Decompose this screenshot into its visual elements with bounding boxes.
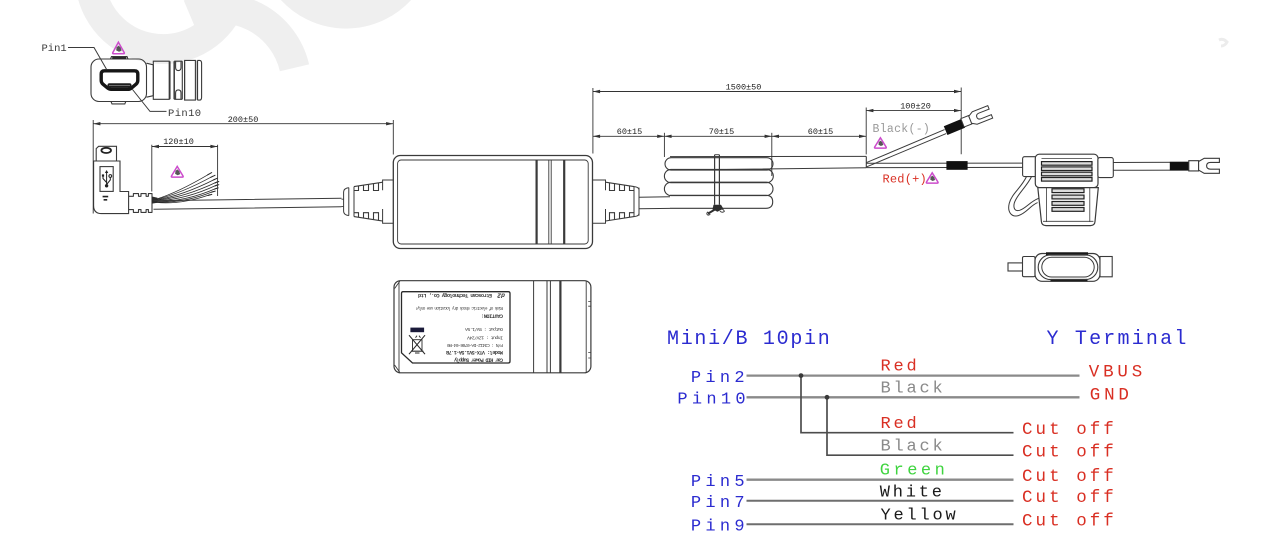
bottom view: dark top bar: [1046, 252, 1088, 255]
strain relief boot (connector): [129, 194, 152, 213]
black bar on label: [410, 328, 424, 333]
svg-text:Output : 5V/1.5A: Output : 5V/1.5A: [465, 326, 503, 332]
FUSE: [1008, 154, 1113, 281]
svg-text:120±10: 120±10: [163, 137, 194, 147]
fuse holder lower cover: [1038, 188, 1099, 226]
svg-text:Cut off: Cut off: [1022, 442, 1117, 462]
mini-USB receptacle opening (thick trapezoid): [101, 71, 138, 90]
wire Pin9: [747, 523, 1014, 525]
wire Pin2 to VBUS: [747, 374, 1080, 376]
adapter box ring line A: [535, 160, 537, 244]
svg-text:Cut off: Cut off: [1022, 420, 1117, 440]
svg-text:Y Terminal: Y Terminal: [1047, 328, 1189, 351]
dimension 1500±50: dimension line: [593, 91, 961, 93]
coiled cable loop 4: [670, 195, 773, 208]
adapter box outer shell: [393, 156, 592, 249]
mold marks: [103, 197, 109, 200]
dimension 60±15 (second): dimension line: [772, 135, 866, 137]
extension line at coil right: [771, 133, 773, 176]
svg-text:100±20: 100±20: [900, 101, 931, 111]
fork terminal (right end): [1189, 158, 1220, 173]
branch wire 2 (black cut off): [827, 397, 1014, 455]
backshell neck: [147, 63, 154, 97]
cable tie knot: [713, 205, 724, 212]
USB trident symbol: [102, 170, 112, 188]
cable tie band: [715, 155, 720, 205]
svg-text:Pin10: Pin10: [677, 391, 750, 410]
svg-text:Red: Red: [881, 415, 920, 434]
right edge nubs: [588, 301, 591, 358]
warning triangle (red wire): [926, 173, 938, 183]
backshell ring 2: [182, 61, 184, 99]
svg-text:White: White: [880, 483, 945, 502]
branch wire 1 (red cut off): [801, 376, 1014, 433]
svg-text:Black: Black: [881, 380, 946, 399]
svg-text:Cut off: Cut off: [1022, 467, 1117, 487]
USB emblem panel: [100, 167, 113, 192]
svg-text:d2: d2: [497, 292, 505, 299]
svg-text:Car HID Power Supply: Car HID Power Supply: [453, 356, 503, 362]
bottom view: inner obround 2: [1042, 257, 1094, 277]
DIMS-LEFT: [93, 115, 393, 214]
fuse holder right cap: [1098, 158, 1113, 178]
lower cover ribs: [1052, 189, 1084, 212]
coiled cable loop 3: [664, 182, 773, 195]
SIDEVIEW: [94, 146, 342, 213]
red main wire: [867, 163, 1023, 168]
COIL: [664, 155, 866, 215]
wire Pin7: [747, 500, 1014, 502]
svg-text:Cut off: Cut off: [1022, 511, 1117, 531]
latch tab oval hole: [101, 148, 111, 153]
svg-text:Black: Black: [881, 438, 946, 457]
dimension 120±10: dimension line: [152, 146, 218, 148]
dimension 200±50: dimension line: [93, 123, 393, 125]
svg-text:Input : 12V/24V: Input : 12V/24V: [467, 335, 503, 341]
fork terminal (black wire): [960, 106, 993, 129]
black branch sleeve: [946, 123, 964, 130]
wire Pin10 to GND: [747, 396, 1080, 398]
svg-text:Risk of electric shock dry loc: Risk of electric shock dry location use …: [415, 305, 503, 310]
outgoing cable to split: [670, 156, 866, 169]
SPLIT: [866, 106, 1219, 187]
warning triangle (black wire): [875, 138, 887, 148]
fuse holder left cap: [1023, 157, 1037, 177]
adapter box inner line: [398, 160, 589, 244]
svg-text:Red(+): Red(+): [883, 172, 927, 186]
watermark small mark top right: [1219, 39, 1227, 46]
warning triangle note (top): [113, 42, 125, 54]
svg-text:Pin9: Pin9: [691, 517, 749, 536]
dimension 120±10: extension lines: [152, 145, 218, 196]
label artwork (printed upside-down): [409, 292, 505, 363]
bottom view: collar: [1023, 257, 1036, 277]
svg-text:P/N : C3412-DA-0708-04-R0: P/N : C3412-DA-0708-04-R0: [447, 342, 503, 348]
dimension 60±15 (first): dimension line: [593, 135, 665, 137]
dimension 70±15: dimension line: [664, 135, 771, 137]
svg-text:VBUS: VBUS: [1089, 362, 1146, 382]
LABELBOX: [394, 281, 591, 373]
leader line Pin10: [133, 90, 167, 112]
fuse holder main body: [1035, 154, 1098, 187]
svg-text:Pin1: Pin1: [42, 43, 67, 55]
bottom view: body: [1035, 254, 1100, 282]
WIREDIAGRAM: [667, 328, 1189, 537]
svg-text:Pin7: Pin7: [691, 494, 749, 513]
svg-text:Pin2: Pin2: [691, 369, 749, 388]
watermark arc C3: [291, 0, 401, 12]
cable jacket box to coil: [639, 197, 670, 209]
coiled cable loop 1: [665, 158, 773, 170]
mini-USB plug: top tab: [111, 57, 129, 59]
bottom view: dark bottom bar: [1051, 279, 1088, 282]
svg-text:Etroscan Technology Co., Ltd: Etroscan Technology Co., Ltd: [418, 292, 492, 298]
bottom view: right block: [1100, 257, 1112, 277]
cable jacket to adapter box: [154, 198, 342, 209]
svg-text:70±15: 70±15: [709, 127, 735, 137]
cable tie tails: [708, 210, 715, 214]
right strain relief boot of box: [593, 180, 640, 223]
adapter box ring lines B: [549, 160, 551, 244]
watermark arc C1: [91, 0, 232, 49]
coiled cable loop 2: [664, 169, 773, 182]
svg-text:Mini/B 10pin: Mini/B 10pin: [667, 328, 831, 351]
red wire sleeve: [946, 161, 967, 170]
DIMS-TOP: [593, 83, 961, 176]
stripped wire bundle tip: [152, 197, 158, 204]
black branch wire: [867, 130, 947, 167]
svg-text:1500±50: 1500±50: [726, 83, 762, 93]
wire Pin5: [747, 479, 1014, 481]
svg-text:Pin10: Pin10: [168, 108, 202, 120]
svg-text:Yellow: Yellow: [881, 507, 959, 526]
svg-text:Model: VTX-5V1.5A-1.7B: Model: VTX-5V1.5A-1.7B: [446, 349, 503, 355]
sleeve before right fork: [1170, 162, 1189, 171]
receptacle inner contact bar: [108, 83, 132, 88]
svg-text:Green: Green: [880, 462, 949, 481]
dimension 200±50: extension lines: [93, 120, 393, 214]
svg-text:Pin5: Pin5: [691, 473, 749, 492]
bottom view: inner obround 1: [1038, 255, 1098, 280]
svg-text:200±50: 200±50: [228, 115, 259, 125]
bottom-view adapter box shell: [394, 281, 591, 373]
extension line at coil left: [663, 133, 665, 157]
bottom box ring lines: [533, 281, 535, 373]
junction node 2: [825, 395, 830, 400]
svg-text:CAUTION:: CAUTION:: [481, 312, 503, 318]
dimension 100±20: extension line left: [865, 108, 867, 155]
backshell clip notches: [174, 61, 182, 99]
WEEE crossed-out bin symbol: [409, 335, 425, 354]
right-angle mini-USB connector: top latch tab: [96, 146, 116, 161]
cable end at split: [865, 156, 867, 167]
svg-text:60±15: 60±15: [808, 127, 834, 137]
bottom box right end cap line: [585, 281, 587, 373]
connector body (L shape): [94, 161, 129, 214]
mini-USB plug: bottom tab: [111, 102, 126, 104]
svg-text:60±15: 60±15: [617, 127, 643, 137]
lanyard strap loop: [1009, 177, 1038, 216]
warning triangle note (wire strip): [171, 166, 183, 177]
svg-text:Cut off: Cut off: [1022, 488, 1117, 508]
FRONTVIEW: [42, 42, 202, 120]
dimension 100±20: dimension line: [866, 110, 961, 112]
svg-text:Red: Red: [881, 358, 920, 377]
leader line Pin1: [68, 48, 107, 70]
mini-USB plug front view: body: [91, 59, 147, 102]
svg-text:Black(-): Black(-): [873, 123, 931, 136]
backshell collar: [185, 60, 196, 100]
adapter box ring line C: [563, 160, 565, 244]
bottom box left end cap line: [398, 281, 400, 373]
watermark arc C2: [190, 8, 295, 68]
svg-text:GND: GND: [1090, 386, 1133, 406]
junction node 1: [799, 373, 804, 378]
backshell section 1: [153, 61, 169, 99]
product label sticker: [402, 292, 511, 363]
backshell double ring: [170, 61, 174, 99]
wire after fuse: [1113, 162, 1189, 170]
dimension 1500±50: extension lines: [593, 88, 961, 155]
left strain relief boot of box: [342, 180, 394, 223]
fuse body ribs: [1042, 159, 1093, 182]
CENTERBOX: [342, 156, 671, 249]
fanned wires: [156, 173, 219, 203]
bottom view: stem: [1008, 263, 1035, 271]
WATERMARK: [91, 0, 1227, 68]
